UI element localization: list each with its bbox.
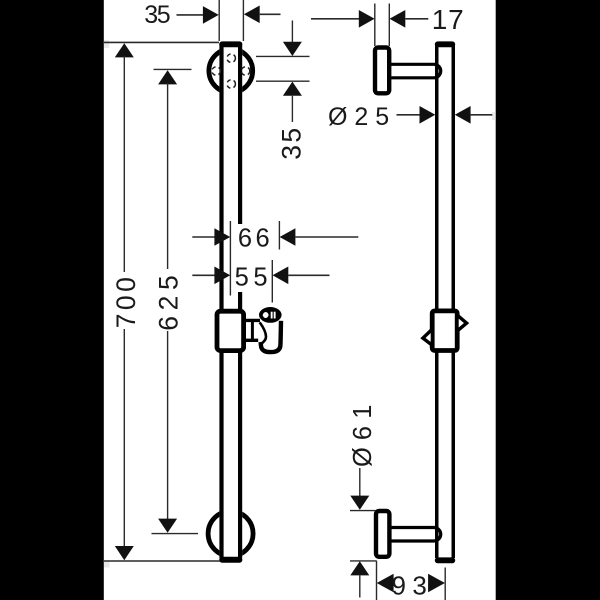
dim 700: arrow up-pointing [115,43,134,57]
right view: slider sleeve [432,311,457,351]
dim 55: label knockout [236,264,268,288]
left view: cone top ellipse [259,307,282,323]
svg-text:55: 55 [235,264,273,292]
dim 625: extension line top [154,68,192,70]
right view: bottom wall plate [376,511,389,557]
dim 17: arrow right-pointing [359,10,375,28]
left view: cone top highlight bar 1 [271,312,273,319]
bar right wall mid+lower segment [238,292,242,558]
dim 35 top: dim line right tail [260,13,281,15]
svg-text:700: 700 [111,274,141,328]
dim 35 top: dim line left tail [177,14,204,16]
svg-text:Ø 2 5: Ø 2 5 [328,103,389,131]
rod top cap [435,41,455,47]
rod body fill [435,44,455,560]
dim 625: arrow down-pointing [158,519,177,533]
left view: holder joint line [251,321,254,341]
dim 700: extension line top [104,41,219,43]
dim 17: extension line right [388,4,390,47]
dim 55: left tail [192,274,215,276]
dim diameter 61: arrow up-pointing [350,561,369,575]
left view: holder arm top line [244,319,260,322]
top wall flange circle [209,49,253,93]
sheet edge mark right [492,112,496,120]
dim diameter 25: right tail [471,114,493,116]
flange screw hole N [227,54,235,62]
dim diameter 61: lower line [359,575,361,597]
dim 700: dim line lower [123,329,125,547]
right view: clamp tab right [457,315,467,331]
dim 35 vertical: extension line lower [256,80,310,82]
dim 35 vertical: extension line upper [256,55,310,57]
dim 17: extension line left [374,4,376,47]
svg-text:625: 625 [154,270,184,331]
dim 93: extension line right [444,568,446,600]
svg-text:35: 35 [144,1,170,29]
dim 35 vertical: arrow up-pointing [283,82,302,96]
svg-text:93: 93 [392,571,434,600]
dim diameter 25: line [397,114,421,116]
dim 66: extension line left (shared with 55) [229,221,231,296]
dim 35 vertical: upper line [291,21,293,43]
dim 625: extension line bottom [152,533,199,535]
flange screw hole S [227,80,235,88]
dim 55: right tail [288,274,329,276]
bar left wall [219,45,223,558]
dim 700: dim line upper [123,56,125,272]
bar right wall upper segment [238,45,242,224]
dim 17: left tail [311,18,359,20]
dim 93: arrow right-pointing [428,574,445,593]
svg-text:35: 35 [277,125,307,159]
left view: cone body [261,321,281,352]
dim diameter 25: arrow left-pointing [455,106,471,124]
dim 625: dim line upper [167,83,169,269]
dim diameter 61: extension line upper [350,510,376,512]
dim 35 vertical: arrow down-pointing [283,42,302,56]
dim 55: arrow right-pointing [214,267,230,285]
dim 17: arrow left-pointing [390,10,406,28]
rod bottom cap [435,557,455,563]
dim 93: arrow left-pointing [377,574,394,593]
dim 66: right tail [295,236,358,238]
dim 66: arrow right-pointing [214,228,230,246]
svg-text:66: 66 [238,224,273,252]
right view: top arm [389,64,441,78]
sheet edge mark top-left [104,40,109,48]
dim 93: extension line left [376,561,378,600]
flange screw hole E [241,67,249,75]
rod left wall [435,45,439,558]
dim 625: dim line lower [167,331,169,520]
left view: cone top highlight bar 2 [274,312,276,319]
dim 700: arrow down-pointing [115,546,134,560]
dim 35 top: extension line right [242,0,244,41]
dim 625: arrow up-pointing [158,70,177,84]
dim 66: arrow left-pointing [280,228,296,246]
dim 35 top: arrow left-pointing [244,6,260,24]
dim 700: extension line bottom [104,560,220,562]
right view: clamp tab left [423,329,433,345]
rod right wall [452,45,456,558]
left view: holder arm bottom line [244,339,258,342]
bar top cap [219,41,242,47]
dim 35 vertical: lower line [291,96,293,122]
dim 66: label knockout [237,226,271,250]
svg-text:17: 17 [432,4,465,35]
dim 35 top: arrow right-pointing [203,6,219,24]
dim diameter 25: arrow right-pointing [420,106,436,124]
dim 17: right tail [405,18,428,20]
dim diameter 61: upper line [359,468,361,497]
dim diameter 61: arrow down-pointing [350,496,369,510]
sheet edge mark bottom-left [104,561,110,568]
left view: cone cut squiggle [260,322,266,344]
right view: bottom arm [389,528,441,542]
dim 66: extension line right [278,221,280,250]
left view: slider sleeve [217,311,244,350]
dim 55: arrow left-pointing [273,267,289,285]
dim 66: left tail [192,236,215,238]
bar bottom cap [219,557,242,563]
left view: cone top highlight leaf [263,312,269,318]
dim diameter 61: extension line lower [350,560,376,562]
svg-text:Ø 6 1: Ø 6 1 [349,405,377,467]
drawing sheet [104,0,496,600]
dim 35 top: extension line left [218,0,220,41]
bar body fill [219,44,242,560]
flange screw hole W [212,67,220,75]
bottom wall flange circle [208,511,253,556]
dim 55: extension line right [271,260,273,303]
right view: top wall plate [375,48,389,94]
